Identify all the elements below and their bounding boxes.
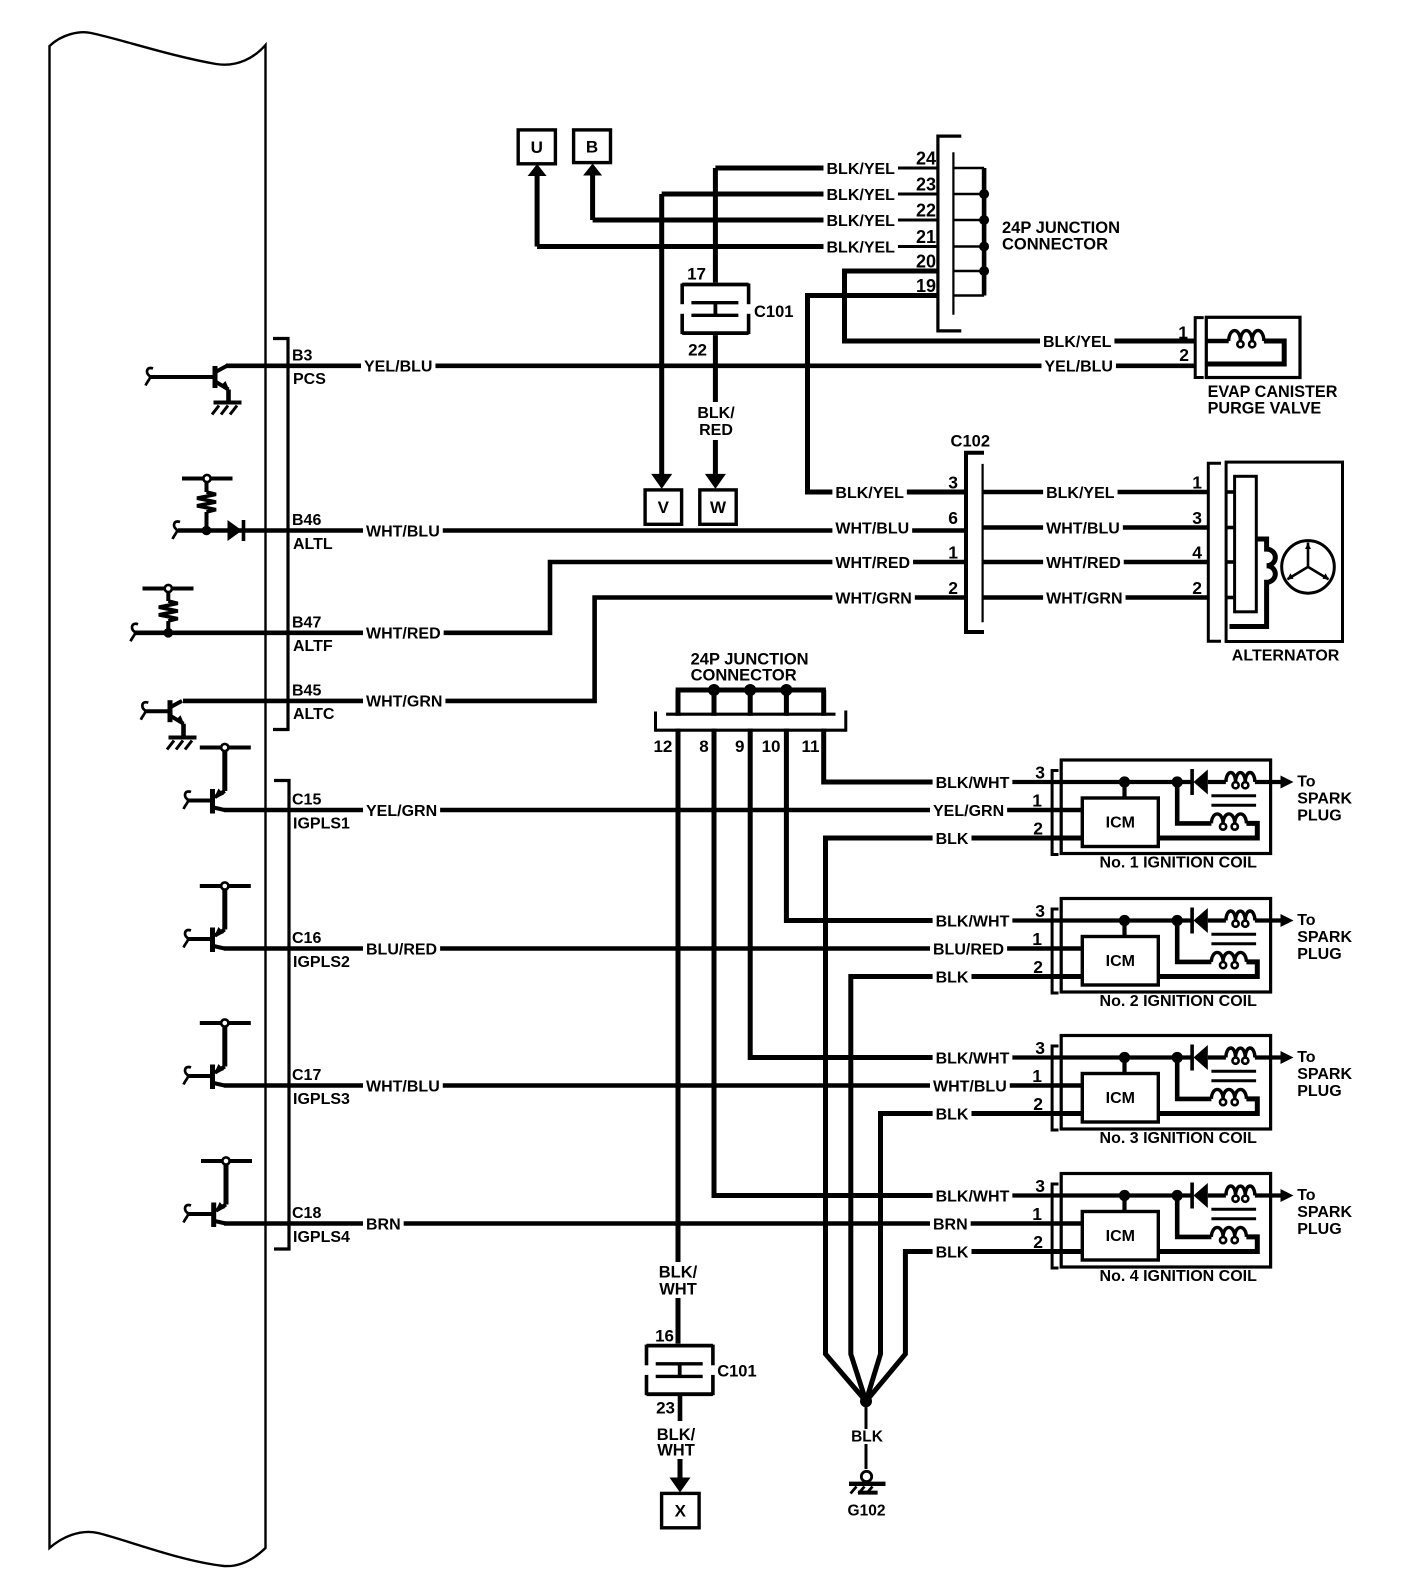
node supply [200,884,251,888]
svg-text:1: 1 [1032,1066,1042,1086]
svg-text:SPARK: SPARK [1297,929,1352,946]
transistor [210,789,215,814]
alternator [1226,462,1342,641]
transistor [211,1203,216,1228]
svg-text:ALTF: ALTF [293,638,333,655]
diode [1190,1045,1194,1071]
EVAP canister purge valve [1206,317,1300,377]
resistor [159,601,178,621]
wire C101 22 to W [713,333,718,402]
svg-text:YEL/GRN: YEL/GRN [933,803,1004,820]
svg-text:CONNECTOR: CONNECTOR [1002,236,1108,254]
label WHT/RED [1043,554,1124,570]
terminal V [651,474,672,489]
wire [205,512,209,531]
svg-text:BLK/YEL: BLK/YEL [835,485,904,502]
svg-text:BLK/YEL: BLK/YEL [1046,485,1115,502]
connector bracket B3-B45 [273,339,288,730]
wire C101 17 to 24 [713,168,718,285]
wire [1122,1058,1126,1074]
wire pin12 drop [676,690,681,1346]
diode [1190,1183,1194,1209]
svg-text:WHT/BLU: WHT/BLU [366,1078,440,1095]
pin stub [1226,560,1235,564]
wire [1122,782,1126,798]
svg-text:EVAP CANISTER: EVAP CANISTER [1208,383,1338,401]
wire BLK coil1 to ground [826,838,1083,1401]
svg-text:WHT/BLU: WHT/BLU [835,520,909,537]
wire BLK coil3 to ground [866,1114,1082,1402]
svg-text:BLU/RED: BLU/RED [933,941,1004,958]
svg-text:SPARK: SPARK [1297,1204,1352,1221]
transistor [168,700,173,722]
svg-text:To: To [1297,1187,1316,1204]
pin 23 [906,175,936,192]
core [1211,933,1256,936]
wire ignition pulse [224,1083,1082,1088]
svg-text:BLK: BLK [936,1244,969,1261]
wire to spark plug [1255,1193,1281,1197]
wire [149,375,215,379]
wire ignition pulse [224,1221,1082,1226]
wire WHT/BLU B46 to C102 [178,528,966,533]
No. 1 ignition coil [1061,760,1270,854]
svg-text:BLK/YEL: BLK/YEL [827,239,896,256]
svg-text:9: 9 [735,737,744,756]
label BLU/RED [363,941,440,957]
svg-text:20: 20 [916,252,936,272]
svg-text:C15: C15 [292,792,321,809]
label WHT/BLU [1043,520,1123,536]
No. 3 ignition coil [1061,1036,1270,1130]
pin line [953,193,984,196]
svg-text:BRN: BRN [933,1216,968,1233]
svg-text:BRN: BRN [366,1216,401,1233]
wire [224,1164,229,1205]
wire [1122,921,1126,937]
junction [979,266,989,276]
wire ignition pulse [224,808,1082,813]
wire [187,1212,214,1216]
wire [1177,782,1211,823]
svg-text:YEL/BLU: YEL/BLU [364,359,432,376]
ground [169,736,197,740]
svg-text:3: 3 [1035,901,1045,921]
wire [1208,918,1226,922]
svg-text:BLK: BLK [936,831,969,848]
node supply [200,1021,251,1025]
svg-text:U: U [531,138,543,157]
svg-text:To: To [1297,774,1316,791]
transistor [213,366,218,388]
svg-text:YEL/BLU: YEL/BLU [1045,359,1113,376]
24P junction connector bus [676,688,826,693]
label WHT/BLU [832,520,912,536]
diode [228,520,243,541]
svg-text:CONNECTOR: CONNECTOR [691,667,797,685]
svg-text:2: 2 [1192,578,1202,598]
pin 24 [906,149,936,166]
label WHT/RED [363,625,444,641]
label BLK [933,969,972,985]
pin stub [1226,596,1235,600]
svg-text:RED: RED [699,422,733,439]
secondary winding [1211,1089,1246,1099]
label WHT/BLU [363,523,443,539]
svg-text:G102: G102 [848,1503,886,1520]
svg-text:2: 2 [1033,1094,1043,1114]
svg-text:3: 3 [1035,1176,1045,1196]
svg-text:BLK/YEL: BLK/YEL [1043,334,1112,351]
label BLK/WHT [933,1050,1013,1066]
svg-text:IGPLS2: IGPLS2 [293,954,350,971]
wire WHT/GRN B45 to C102 [183,598,966,701]
svg-text:C16: C16 [292,930,321,947]
svg-text:10: 10 [762,737,781,756]
svg-text:C17: C17 [292,1067,321,1084]
junction dots on bus [708,684,720,696]
transistor [210,1065,215,1090]
wire pin3 internal [1010,1055,1192,1059]
svg-text:ALTL: ALTL [293,536,333,553]
svg-text:To: To [1297,1049,1316,1066]
svg-text:1: 1 [1192,473,1202,493]
label BRN [363,1216,404,1232]
svg-text:PLUG: PLUG [1297,808,1341,825]
field winding [1230,539,1276,627]
svg-text:21: 21 [916,227,936,247]
wire ignition pulse [224,946,1082,951]
core [1211,794,1256,797]
svg-text:17: 17 [687,265,706,284]
wire [1177,1058,1211,1099]
svg-text:No. 3 IGNITION COIL: No. 3 IGNITION COIL [1100,1130,1258,1147]
24P junction connector (middle) body [657,716,844,729]
label BLK/WHT [933,774,1013,790]
connector C102 [966,453,984,632]
svg-text:C101: C101 [754,303,793,321]
svg-text:1: 1 [1032,929,1042,949]
wire [187,937,213,941]
node supply [200,746,251,750]
label BLK/WHT [933,1188,1013,1204]
wire pin8 drop to coil4 [714,690,936,1196]
wire pin2 internal [980,1249,1082,1253]
pin stub [1226,526,1235,530]
pin line [953,245,984,248]
label YEL/GRN [930,802,1007,818]
svg-text:C101: C101 [717,1363,756,1381]
wire BLK to G102 [865,1401,868,1469]
wire pin2 internal [980,1111,1082,1115]
jumper wire [982,168,987,296]
svg-text:ICM: ICM [1106,1228,1135,1245]
svg-text:WHT: WHT [657,1442,695,1460]
svg-text:11: 11 [802,737,820,756]
svg-text:SPARK: SPARK [1297,791,1352,808]
pin 20 [906,252,936,269]
svg-text:V: V [658,498,670,517]
wire [1177,921,1211,962]
wire to spark plug [1255,1055,1281,1059]
wire [1158,823,1257,838]
svg-text:WHT/BLU: WHT/BLU [933,1078,1007,1095]
svg-text:3: 3 [1192,508,1202,528]
wire [1208,1055,1226,1059]
wire BLK/YEL pin22 [593,218,897,223]
svg-text:BLK/WHT: BLK/WHT [936,1188,1010,1205]
wire pin3 internal [1010,1193,1192,1197]
label BLK [933,830,972,846]
wire to V terminal [659,194,664,476]
core [1211,1070,1256,1073]
wire pin2 internal [980,836,1082,840]
resistor [197,492,216,512]
node [182,477,233,481]
svg-text:2: 2 [1033,957,1043,977]
node supply [201,1159,252,1163]
svg-text:PURGE VALVE: PURGE VALVE [1208,400,1322,418]
wire [1208,1193,1226,1197]
svg-text:8: 8 [699,737,708,756]
svg-text:BLK/: BLK/ [697,405,735,422]
wire WHT/GRN to alternator [983,595,1209,600]
label WHT/GRN [363,693,445,709]
svg-text:1: 1 [1032,791,1042,811]
ICM U2 [1082,937,1158,986]
diode [1190,769,1194,795]
wire pin9 drop to coil3 [750,690,935,1058]
svg-text:C102: C102 [951,433,990,451]
svg-text:1: 1 [1178,323,1188,343]
svg-text:ALTERNATOR: ALTERNATOR [1232,648,1340,665]
svg-text:24: 24 [916,149,936,169]
EVAP canister purge valve connector [1195,318,1204,378]
svg-text:19: 19 [916,276,936,296]
terminal W [713,463,718,476]
svg-text:1: 1 [1032,1204,1042,1224]
svg-text:WHT/RED: WHT/RED [835,555,910,572]
terminal X [678,1459,683,1480]
label BLK/YEL [824,160,898,176]
label YEL/BLU [1042,358,1116,374]
transistor [210,928,215,953]
svg-text:B3: B3 [292,347,313,364]
svg-text:B46: B46 [292,512,321,529]
svg-text:3: 3 [1035,1038,1045,1058]
svg-text:No. 2 IGNITION COIL: No. 2 IGNITION COIL [1100,993,1258,1010]
label BLK [933,1244,972,1260]
wire pin3 internal [1010,780,1192,784]
svg-text:PLUG: PLUG [1297,946,1341,963]
terminal B [590,174,595,221]
terminal U [535,174,540,247]
wire [222,1026,227,1067]
secondary winding [1211,814,1246,823]
label YEL/BLU [361,358,435,374]
svg-text:PLUG: PLUG [1297,1221,1341,1238]
wire BLK/YEL to alternator [983,490,1209,495]
wire [166,621,170,633]
label BLK/YEL [1043,484,1117,500]
No. 4 ignition coil [1061,1174,1270,1268]
wire [1208,780,1226,784]
primary winding [1226,1048,1255,1058]
svg-text:X: X [675,1502,687,1521]
solenoid coil [1206,339,1228,344]
wire [144,709,170,713]
junction [979,215,989,225]
svg-text:WHT/BLU: WHT/BLU [1046,520,1120,537]
svg-text:IGPLS4: IGPLS4 [293,1229,350,1246]
ICM U1 [1082,798,1158,847]
svg-text:W: W [710,498,727,517]
label BLK [849,1429,886,1444]
pin line [953,294,984,297]
svg-text:BLU/RED: BLU/RED [366,941,437,958]
svg-text:4: 4 [1192,543,1202,563]
svg-text:No. 1 IGNITION COIL: No. 1 IGNITION COIL [1100,855,1258,872]
wire to spark plug [1255,918,1281,922]
wire to spark plug [1255,780,1281,784]
No. 3 ignition coil connector [1052,1046,1058,1130]
wire BLK/YEL pin23 [662,192,897,197]
svg-text:BLK/YEL: BLK/YEL [827,213,896,230]
wire WHT/RED to alternator [983,560,1209,565]
alternator connector [1208,463,1221,641]
junction [979,189,989,199]
wire WHT/RED B47 to C102 [134,562,966,633]
wire [166,592,170,601]
svg-text:1: 1 [948,543,958,563]
svg-text:BLK/WHT: BLK/WHT [936,913,1010,930]
label WHT/BLU [930,1078,1010,1094]
label BLK/YEL [824,239,898,255]
svg-text:B47: B47 [292,614,321,631]
wire BLK/YEL pin24 [715,166,897,171]
svg-text:WHT/GRN: WHT/GRN [1046,590,1122,607]
No. 1 ignition coil connector [1052,771,1058,855]
label BLU/RED [930,941,1007,957]
secondary winding [1211,952,1246,962]
wire pin3 internal [1010,918,1192,922]
wire YEL/BLU B3 to EVAP [226,363,1195,368]
ECM body (torn strip) [50,32,266,1566]
label BLK/YEL [824,186,898,202]
svg-text:3: 3 [948,473,958,493]
core [1211,1208,1256,1211]
svg-text:2: 2 [1179,345,1189,365]
svg-text:B: B [586,137,598,156]
label WHT/BLU [363,1078,443,1094]
pin 21 [906,227,936,244]
pin stub [1226,490,1235,494]
svg-text:BLK: BLK [936,969,969,986]
svg-text:C18: C18 [292,1205,321,1222]
svg-text:B45: B45 [292,682,321,699]
svg-text:PLUG: PLUG [1297,1083,1341,1100]
secondary winding [1211,1227,1246,1237]
svg-text:ICM: ICM [1106,1090,1135,1107]
primary winding [1226,773,1255,783]
wire pin19 to C102 pin3 [808,296,967,493]
ICM U3 [1082,1074,1158,1123]
primary winding [1226,1186,1255,1196]
wire [187,799,213,803]
label WHT/GRN [1043,590,1125,606]
pin line [953,167,984,170]
svg-text:YEL/GRN: YEL/GRN [366,803,437,820]
wire pin11 drop to coil1 [824,690,936,782]
pin 19 [906,276,936,293]
connector bracket C15-C18 [274,781,289,1250]
svg-text:IGPLS3: IGPLS3 [293,1091,350,1108]
svg-text:BLK/: BLK/ [659,1264,698,1282]
svg-text:23: 23 [916,175,936,195]
wire WHT/BLU to alternator [983,525,1209,530]
svg-text:16: 16 [655,1327,674,1346]
svg-text:WHT/GRN: WHT/GRN [366,694,442,711]
wire pin10 drop to coil2 [786,690,935,921]
stator symbol [1282,541,1335,594]
label BRN [930,1216,971,1232]
svg-text:BLK/YEL: BLK/YEL [827,187,896,204]
svg-text:BLK/WHT: BLK/WHT [936,1050,1010,1067]
connector C101 [682,283,748,287]
pin line [953,270,984,273]
wire pin2 internal [980,974,1082,978]
ground G102 [861,1471,871,1481]
wire [222,889,227,930]
svg-text:ICM: ICM [1106,815,1135,832]
wire [187,1074,213,1078]
svg-text:WHT/RED: WHT/RED [366,626,441,643]
svg-text:BLK/WHT: BLK/WHT [936,775,1010,792]
wire [1158,1099,1257,1114]
svg-text:WHT/BLU: WHT/BLU [366,523,440,540]
junction [979,242,989,252]
svg-text:22: 22 [688,341,707,360]
pin 22 [906,201,936,218]
label YEL/GRN [363,802,440,818]
wire [1122,1196,1126,1212]
svg-text:WHT/GRN: WHT/GRN [835,590,911,607]
svg-text:BLK: BLK [936,1106,969,1123]
svg-text:12: 12 [653,737,672,756]
wire [205,482,209,492]
label BLK/WHT [933,913,1013,929]
svg-text:IGPLS1: IGPLS1 [293,815,350,832]
wire pin20 to EVAP [845,271,1196,341]
svg-text:SPARK: SPARK [1297,1066,1352,1083]
label WHT/GRN [832,590,914,606]
ICM U4 [1082,1212,1158,1261]
diode [1190,908,1194,934]
label BLK/YEL [832,484,906,500]
svg-text:24P JUNCTION: 24P JUNCTION [1002,219,1120,237]
wire BLK/YEL pin21 [537,244,897,249]
regulator block [1235,476,1257,612]
pin line [953,219,984,222]
wire [1158,1237,1257,1252]
svg-text:3: 3 [1035,763,1045,783]
svg-text:2: 2 [948,578,958,598]
svg-text:WHT: WHT [659,1281,697,1299]
svg-text:PCS: PCS [293,371,326,388]
svg-text:WHT/RED: WHT/RED [1046,555,1121,572]
No. 2 ignition coil [1061,899,1270,993]
label BLK/YEL [1040,333,1114,349]
